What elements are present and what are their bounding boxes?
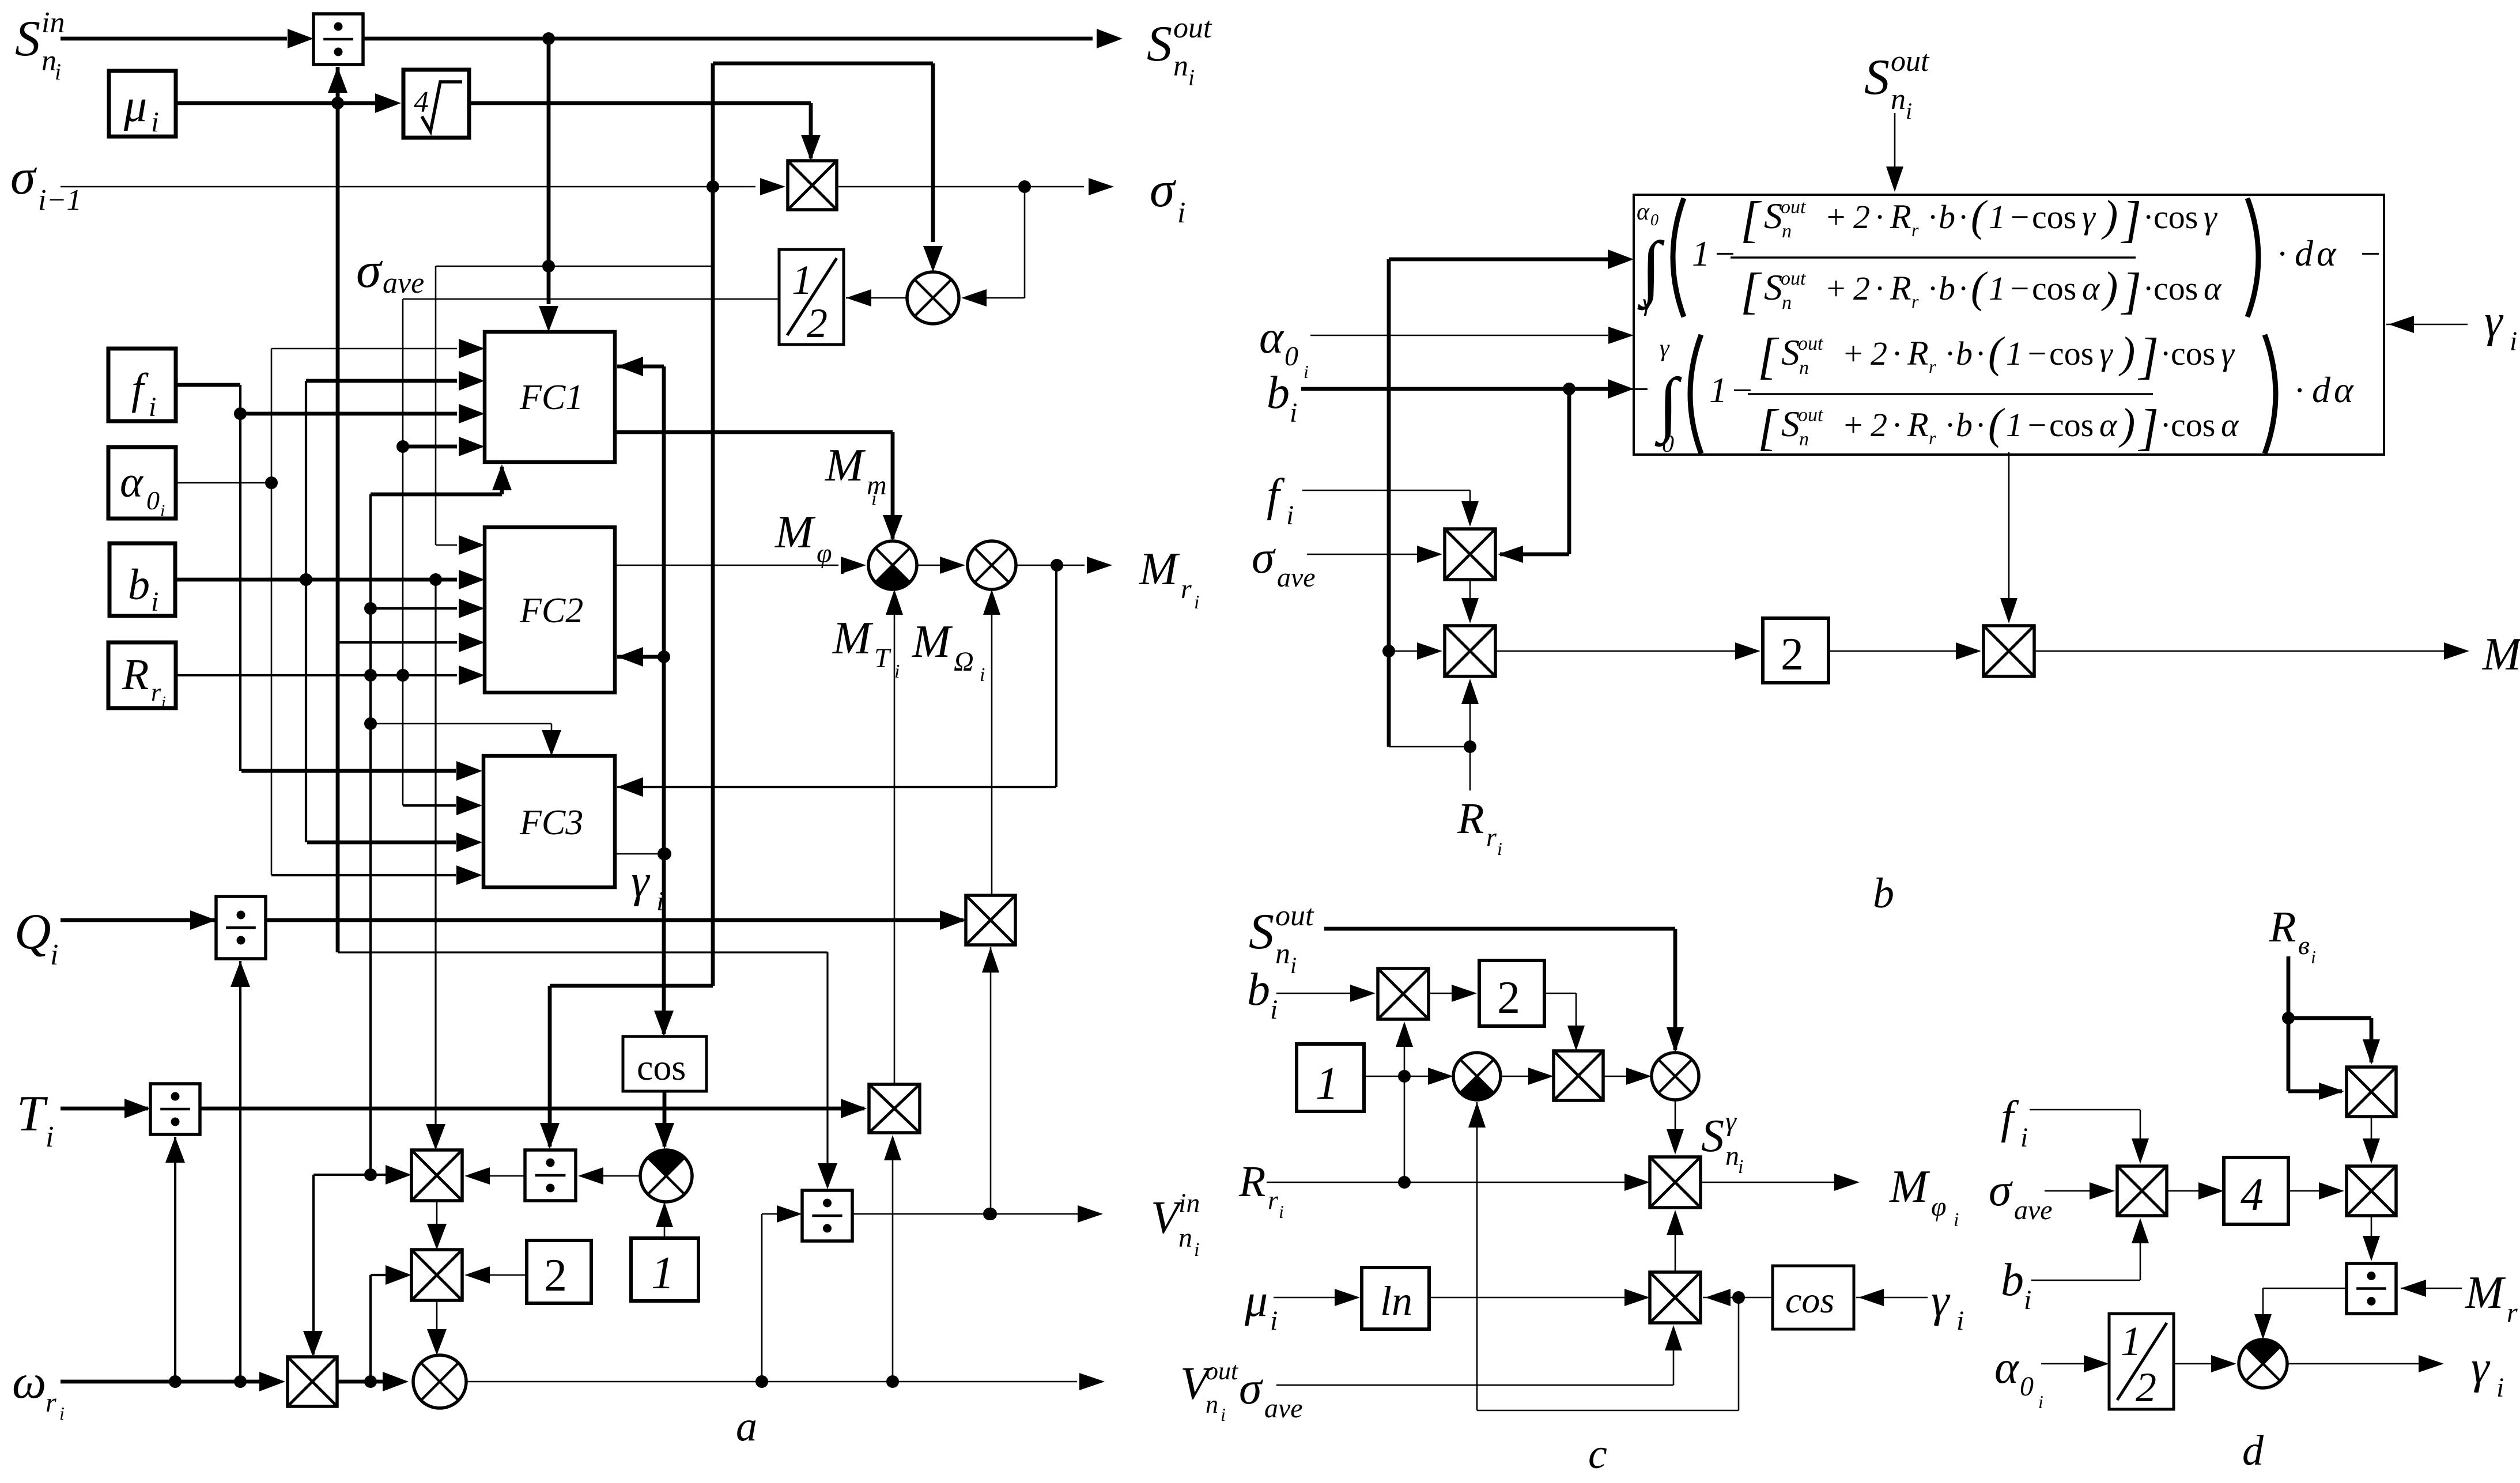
svg-text:−: − (2008, 198, 2031, 236)
svg-text:i: i (1304, 361, 1309, 382)
svg-text:FC2: FC2 (519, 591, 583, 630)
svg-text:M: M (2465, 1268, 2506, 1318)
svg-text:]: ] (2120, 263, 2141, 319)
svg-text:n: n (1178, 1223, 1192, 1253)
svg-text:i: i (2020, 1122, 2028, 1153)
svg-text:i: i (871, 488, 876, 509)
svg-text:i: i (1497, 838, 1502, 859)
svg-text:−: − (1730, 371, 1754, 410)
svg-text:μ: μ (123, 81, 147, 131)
svg-text:i: i (656, 886, 664, 917)
svg-text:i: i (46, 1121, 54, 1153)
svg-text:i: i (151, 105, 159, 138)
svg-text:·: · (1945, 335, 1954, 372)
svg-text:n: n (1725, 1141, 1739, 1171)
svg-text:S: S (1147, 16, 1172, 72)
svg-text:−: − (2026, 335, 2048, 372)
svg-text:γ: γ (2221, 335, 2235, 372)
svg-text:i: i (2038, 1391, 2043, 1412)
svg-text:ave: ave (2014, 1195, 2053, 1225)
svg-text:+: + (1824, 198, 1847, 236)
svg-text:cos: cos (2049, 335, 2094, 372)
svg-text:cos: cos (2153, 198, 2198, 236)
svg-text:0: 0 (2020, 1371, 2034, 1402)
svg-text:2: 2 (1871, 335, 1887, 372)
svg-text:σ: σ (356, 243, 383, 298)
svg-text:out: out (1798, 404, 1824, 426)
svg-text:S: S (1781, 403, 1800, 444)
svg-text:r: r (1911, 291, 1919, 312)
svg-text:i: i (1290, 398, 1297, 428)
svg-text:i: i (1290, 952, 1297, 978)
svg-text:·: · (1959, 198, 1967, 236)
svg-text:cos: cos (2049, 406, 2094, 444)
svg-text:d: d (2242, 1427, 2264, 1474)
svg-text:n: n (1891, 83, 1906, 116)
svg-text:1: 1 (1692, 234, 1710, 274)
svg-text:γ: γ (2082, 198, 2096, 236)
svg-text:i: i (55, 59, 61, 85)
svg-text:i: i (1279, 1201, 1284, 1222)
svg-text:r: r (46, 1387, 56, 1418)
svg-text:σ: σ (10, 149, 37, 205)
svg-text:d: d (2295, 233, 2314, 274)
svg-text:b: b (2001, 1255, 2024, 1306)
svg-text:i: i (1270, 994, 1278, 1025)
svg-text:α: α (2204, 270, 2222, 307)
svg-text:+: + (1824, 270, 1847, 307)
svg-text:·: · (2144, 198, 2152, 236)
svg-text:1: 1 (1316, 1058, 1339, 1109)
svg-text:b: b (1956, 335, 1973, 372)
svg-text:M: M (2482, 629, 2520, 680)
svg-text:c: c (1588, 1431, 1607, 1478)
svg-text:γ: γ (631, 856, 651, 907)
svg-text:γ: γ (1931, 1276, 1951, 1326)
svg-text:S: S (1764, 195, 1782, 236)
svg-text:b: b (1873, 870, 1894, 917)
svg-text:): ) (2118, 400, 2135, 448)
svg-text:M: M (825, 440, 866, 491)
svg-text:4: 4 (2241, 1170, 2264, 1220)
svg-text:T: T (874, 643, 891, 674)
svg-text:φ: φ (817, 538, 832, 569)
svg-text:in: in (41, 6, 65, 39)
svg-text:α: α (1637, 199, 1650, 225)
svg-text:r: r (1929, 428, 1936, 448)
svg-text:M: M (774, 507, 816, 558)
svg-text:i: i (1270, 1306, 1278, 1336)
svg-text:0: 0 (1662, 431, 1674, 457)
svg-text:M: M (832, 613, 874, 664)
svg-text:σ: σ (1239, 1363, 1263, 1414)
svg-text:α: α (1259, 312, 1284, 363)
svg-text:ln: ln (1380, 1278, 1412, 1324)
svg-text:FC1: FC1 (519, 378, 583, 417)
svg-text:out: out (1275, 899, 1314, 932)
svg-text:out: out (1798, 333, 1824, 354)
svg-text:cos: cos (2171, 406, 2215, 444)
svg-text:0: 0 (146, 486, 160, 515)
svg-text:σ: σ (1989, 1165, 2013, 1216)
svg-text:−: − (2358, 234, 2382, 274)
svg-text:cos: cos (1785, 1280, 1834, 1321)
svg-text:b: b (1939, 198, 1955, 236)
svg-text:1: 1 (1989, 198, 2005, 236)
svg-text:r: r (1486, 822, 1497, 852)
svg-text:cos: cos (637, 1047, 686, 1088)
svg-text:−: − (2008, 270, 2031, 307)
svg-text:): ) (2101, 192, 2118, 240)
svg-text:out: out (1781, 196, 1807, 218)
svg-text:·: · (1945, 406, 1954, 444)
svg-text:]: ] (2137, 328, 2159, 384)
svg-text:M: M (1889, 1162, 1930, 1212)
svg-text:·: · (1892, 406, 1901, 444)
svg-text:n: n (1275, 937, 1290, 970)
svg-text:1: 1 (1709, 371, 1727, 410)
svg-text:S: S (1701, 1111, 1724, 1162)
svg-text:μ: μ (1244, 1276, 1268, 1326)
svg-text:i: i (2510, 326, 2517, 357)
svg-text:α: α (2334, 369, 2354, 410)
svg-text:ave: ave (383, 267, 424, 300)
svg-text:i: i (59, 1403, 65, 1424)
svg-text:·: · (1875, 270, 1884, 307)
svg-text:): ) (2101, 263, 2118, 312)
svg-text:S: S (1249, 904, 1274, 960)
svg-text:cos: cos (2032, 198, 2076, 236)
svg-text:4: 4 (414, 86, 429, 119)
svg-text:0: 0 (1650, 211, 1658, 229)
svg-text:[: [ (1740, 192, 1762, 248)
svg-text:S: S (1764, 267, 1782, 308)
svg-text:1: 1 (2006, 406, 2023, 444)
svg-text:i: i (1738, 1156, 1743, 1178)
svg-text:·: · (2161, 335, 2170, 372)
svg-text:n: n (1782, 221, 1792, 242)
svg-text:i: i (161, 694, 166, 712)
svg-text:ave: ave (1264, 1393, 1303, 1424)
svg-text:σ: σ (1252, 532, 1276, 583)
svg-text:r: r (1929, 356, 1936, 377)
svg-text:2: 2 (1497, 973, 1520, 1023)
svg-text:i: i (1188, 65, 1195, 90)
svg-text:R: R (1457, 795, 1484, 843)
svg-text:·: · (2161, 406, 2170, 444)
svg-text:α: α (2317, 233, 2337, 274)
svg-text:i: i (2311, 947, 2316, 967)
svg-text:R: R (122, 650, 149, 699)
svg-text:b: b (128, 561, 150, 609)
svg-text:·: · (1976, 335, 1985, 372)
svg-text:·: · (1892, 335, 1901, 372)
svg-text:γ: γ (2484, 296, 2504, 347)
svg-text:+: + (1842, 335, 1864, 372)
svg-text:i: i (2024, 1285, 2031, 1315)
svg-text:r: r (1911, 220, 1919, 240)
svg-text:r: r (1181, 574, 1192, 604)
svg-text:·: · (2144, 270, 2152, 307)
svg-text:2: 2 (807, 300, 828, 346)
svg-text:out: out (1781, 268, 1807, 289)
svg-text:2: 2 (1853, 198, 1870, 236)
svg-text:γ: γ (1642, 290, 1653, 316)
svg-text:1: 1 (1989, 270, 2005, 307)
svg-text:−: − (1713, 234, 1737, 274)
svg-text:r: r (151, 678, 161, 706)
svg-text:φ: φ (1931, 1191, 1947, 1222)
svg-text:i: i (1954, 1209, 1959, 1231)
svg-text:n: n (1799, 429, 1809, 450)
svg-text:i: i (160, 501, 165, 520)
svg-text:·: · (1875, 198, 1884, 236)
svg-text:n: n (1206, 1390, 1218, 1418)
svg-text:S: S (15, 11, 40, 67)
svg-text:[: [ (1758, 328, 1780, 384)
svg-text:b: b (1247, 964, 1270, 1015)
svg-text:i: i (1221, 1404, 1226, 1425)
svg-text:Q: Q (14, 904, 51, 960)
svg-text:·: · (2277, 234, 2287, 274)
svg-text:i: i (980, 664, 985, 686)
svg-text:M: M (912, 616, 953, 667)
svg-text:[: [ (1758, 400, 1780, 456)
svg-text:i: i (1286, 500, 1294, 531)
svg-text:i: i (50, 939, 58, 971)
svg-text:in: in (1178, 1188, 1200, 1219)
svg-text:γ: γ (2471, 1342, 2491, 1393)
svg-text:i: i (1956, 1306, 1964, 1336)
svg-text:M: M (1139, 544, 1180, 595)
svg-text:FC3: FC3 (519, 803, 583, 842)
svg-text:d: d (2312, 369, 2331, 410)
svg-text:γ: γ (1660, 335, 1670, 362)
svg-text:b: b (1939, 270, 1955, 307)
svg-text:i: i (1194, 1239, 1199, 1261)
svg-text:·: · (1928, 198, 1937, 236)
svg-text:T: T (17, 1086, 48, 1142)
svg-text:ω: ω (12, 1355, 46, 1409)
svg-text:i: i (1906, 98, 1912, 124)
svg-text:out: out (1206, 1357, 1239, 1385)
svg-text:1: 1 (2121, 1318, 2141, 1364)
svg-text:α: α (2099, 406, 2118, 444)
svg-text:b: b (1267, 368, 1290, 418)
svg-text:R: R (1890, 269, 1911, 307)
svg-text:γ: γ (1725, 1106, 1737, 1137)
svg-text:·: · (1976, 406, 1985, 444)
svg-text:R: R (1907, 334, 1929, 372)
svg-text:1: 1 (651, 1248, 674, 1299)
svg-text:r: r (2507, 1297, 2518, 1328)
svg-text:2: 2 (1853, 270, 1870, 307)
svg-text:2: 2 (1781, 629, 1804, 680)
svg-text:cos: cos (2171, 335, 2215, 372)
svg-text:[: [ (1740, 263, 1762, 319)
svg-text:γ: γ (2204, 198, 2218, 236)
svg-text:+: + (1842, 406, 1864, 444)
svg-text:α: α (120, 458, 144, 506)
svg-text:out: out (1173, 12, 1212, 44)
svg-text:i: i (151, 587, 158, 617)
svg-text:1: 1 (792, 257, 813, 303)
svg-text:cos: cos (2032, 270, 2076, 307)
svg-text:−: − (2026, 406, 2048, 444)
svg-text:i−1: i−1 (38, 184, 82, 217)
svg-text:r: r (1268, 1185, 1279, 1215)
svg-text:R: R (1890, 198, 1911, 236)
svg-text:ave: ave (1277, 562, 1316, 593)
svg-text:n: n (1782, 292, 1792, 313)
svg-text:n: n (1799, 357, 1809, 379)
svg-text:i: i (894, 661, 900, 682)
svg-text:b: b (1956, 406, 1973, 444)
svg-text:·: · (2295, 371, 2304, 410)
svg-text:i: i (149, 392, 156, 422)
svg-text:cos: cos (2153, 270, 2198, 307)
svg-text:i: i (1194, 592, 1199, 613)
svg-text:2: 2 (2136, 1364, 2156, 1410)
svg-text:γ: γ (2099, 335, 2114, 372)
svg-text:]: ] (2120, 192, 2141, 248)
svg-text:2: 2 (544, 1250, 567, 1301)
svg-text:i: i (1177, 196, 1185, 229)
svg-text:R: R (1907, 406, 1929, 444)
svg-text:1: 1 (2006, 335, 2023, 372)
svg-text:α: α (1994, 1342, 2020, 1393)
svg-text:·: · (1959, 270, 1967, 307)
svg-text:R: R (2269, 903, 2296, 951)
svg-text:S: S (1781, 332, 1800, 373)
svg-text:a: a (736, 1403, 757, 1450)
svg-text:out: out (1891, 45, 1930, 78)
svg-text:): ) (2118, 328, 2135, 377)
svg-text:Ω: Ω (954, 646, 974, 677)
svg-text:]: ] (2137, 400, 2159, 456)
svg-text:α: α (2221, 406, 2239, 444)
svg-text:σ: σ (1150, 162, 1177, 218)
svg-text:n: n (1173, 50, 1188, 82)
svg-text:α: α (2082, 270, 2100, 307)
svg-text:2: 2 (1871, 406, 1887, 444)
svg-text:i: i (2496, 1372, 2504, 1403)
svg-text:S: S (1864, 50, 1890, 105)
svg-text:R: R (1238, 1157, 1265, 1206)
svg-text:·: · (1928, 270, 1937, 307)
svg-text:в: в (2298, 930, 2310, 960)
svg-text:i: i (840, 559, 845, 578)
